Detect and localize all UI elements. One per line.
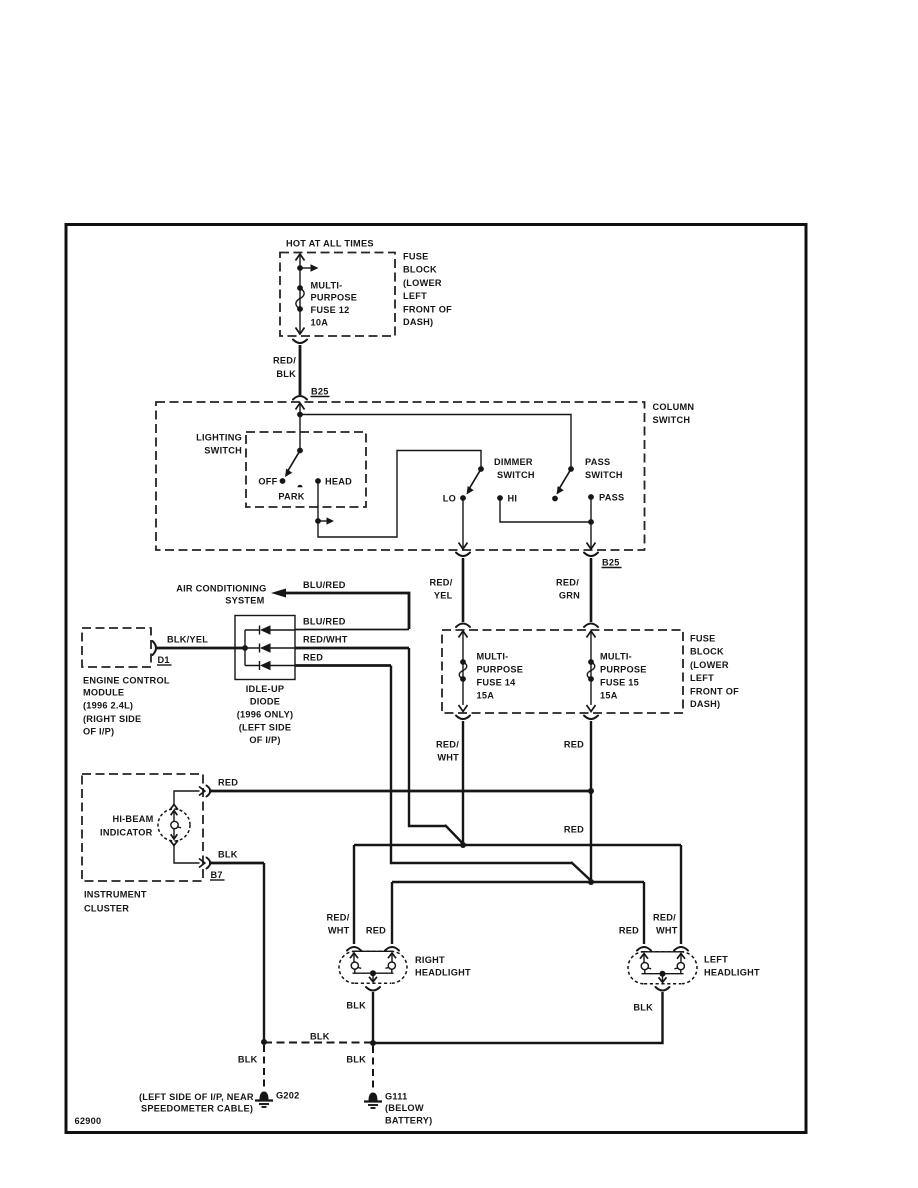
connector cup B25-PASS (584, 553, 598, 557)
connector cup LHL ground (656, 987, 670, 991)
wire BLK dashed link (264, 1042, 373, 1044)
svg-text:DASH): DASH) (690, 699, 720, 709)
ground G202 (255, 1092, 273, 1108)
svg-text:CLUSTER: CLUSTER (84, 904, 129, 914)
connector cup LHL red (637, 947, 651, 951)
svg-text:PASS: PASS (599, 493, 624, 503)
svg-text:LO: LO (443, 494, 456, 504)
connector cup RHL red (385, 947, 399, 951)
svg-text:B25: B25 (311, 387, 329, 397)
svg-text:RED/: RED/ (653, 913, 676, 923)
svg-text:RED: RED (564, 825, 584, 835)
svg-text:FUSE 12: FUSE 12 (311, 305, 350, 315)
lighting switch arm (288, 451, 301, 472)
svg-text:HEADLIGHT: HEADLIGHT (704, 968, 760, 978)
svg-text:SWITCH: SWITCH (585, 470, 623, 480)
wire hi-beam to RED (174, 791, 200, 805)
svg-text:WHT: WHT (328, 926, 350, 936)
arrow down fuse14 exit (459, 705, 468, 712)
svg-text:HEAD: HEAD (325, 477, 352, 487)
contact LO (460, 495, 466, 501)
svg-text:15A: 15A (477, 691, 495, 701)
svg-text:10A: 10A (311, 318, 329, 328)
fuse block 2 dashed box (442, 630, 683, 713)
svg-text:RED/: RED/ (436, 740, 459, 750)
node B25 feed dot (297, 412, 303, 418)
svg-text:DIMMER: DIMMER (494, 457, 533, 467)
svg-text:BLK/YEL: BLK/YEL (167, 635, 208, 645)
svg-text:BLK: BLK (346, 1055, 366, 1065)
svg-text:PARK: PARK (278, 492, 304, 502)
dimmer switch arm (469, 469, 481, 489)
svg-text:GRN: GRN (559, 591, 580, 601)
fuse F15 wire (590, 631, 592, 705)
connector cup LHL redwht (674, 947, 688, 951)
wire BLU/RED diode out (295, 629, 409, 631)
svg-text:PASS: PASS (585, 457, 610, 467)
svg-text:LEFT: LEFT (403, 291, 427, 301)
arrow up fuse15 entry (587, 631, 596, 638)
svg-text:WHT: WHT (437, 753, 459, 763)
LHL filament low (677, 954, 685, 959)
svg-text:DIODE: DIODE (250, 697, 280, 707)
svg-text:MULTI-: MULTI- (600, 652, 632, 662)
connector B25 cup (293, 396, 307, 400)
svg-text:(1996 ONLY): (1996 ONLY) (237, 710, 294, 720)
svg-text:SPEEDOMETER CABLE): SPEEDOMETER CABLE) (141, 1104, 253, 1114)
diode bus BLK/YEL (156, 647, 245, 650)
svg-text:RED/: RED/ (556, 578, 579, 588)
wire BLK left headlight (373, 992, 663, 1043)
svg-text:BLK: BLK (276, 369, 296, 379)
arrow up to hot feed (296, 254, 305, 261)
svg-text:RIGHT: RIGHT (415, 955, 445, 965)
RHL filament low (350, 953, 358, 958)
wire from HEAD (318, 451, 481, 538)
label idle-up diode (237, 684, 294, 745)
wire BLK right headlight (372, 992, 374, 1043)
connector cup fuse15 bottom (584, 716, 598, 720)
diode 2 (245, 647, 295, 649)
svg-text:RED/: RED/ (327, 913, 350, 923)
svg-text:BLK: BLK (346, 1001, 366, 1011)
svg-text:INDICATOR: INDICATOR (100, 828, 153, 838)
fuse F14 symbol (460, 659, 466, 665)
svg-text:SWITCH: SWITCH (497, 470, 535, 480)
arrow B25 male (296, 403, 305, 410)
pass switch arm (559, 469, 571, 489)
connector arrow cluster RED (199, 787, 205, 796)
svg-text:RED/: RED/ (273, 356, 296, 366)
wire from B25 to lighting switch (299, 403, 301, 450)
svg-text:BLK: BLK (633, 1003, 653, 1013)
svg-text:COLUMN: COLUMN (653, 402, 695, 412)
svg-text:BLU/RED: BLU/RED (303, 580, 346, 590)
contact HEAD (315, 478, 321, 484)
svg-text:PURPOSE: PURPOSE (477, 665, 524, 675)
arrow down PASS exit (587, 543, 596, 550)
arrow down LO exit (459, 543, 468, 550)
dimmer switch pivot (478, 466, 484, 472)
arrow to park/tail circuits (318, 520, 327, 522)
fuse block 2 label (690, 634, 739, 710)
svg-text:FRONT OF: FRONT OF (690, 687, 739, 697)
svg-text:RED: RED (564, 740, 584, 750)
svg-text:RED: RED (619, 926, 639, 936)
arrow down at fuse block 1 exit (296, 328, 305, 335)
svg-text:YEL: YEL (434, 591, 453, 601)
hi-beam indicator bulb (158, 809, 190, 841)
wire BLU/RED to AC (284, 593, 409, 629)
connector cup D1 (153, 641, 157, 655)
arrow down fuse15 exit (587, 705, 596, 712)
svg-text:OFF: OFF (258, 477, 277, 487)
connector cup RHL ground (366, 987, 380, 991)
svg-text:MODULE: MODULE (83, 688, 124, 698)
arrow up fuse14 entry (459, 631, 468, 638)
svg-text:SYSTEM: SYSTEM (225, 596, 264, 606)
svg-text:RED/WHT: RED/WHT (303, 635, 348, 645)
svg-text:(RIGHT SIDE: (RIGHT SIDE (83, 714, 141, 724)
fuse F12 symbol (297, 285, 303, 291)
svg-text:LIGHTING: LIGHTING (196, 433, 242, 443)
svg-text:B25: B25 (602, 558, 620, 568)
LHL filament high (640, 954, 648, 959)
svg-text:IDLE-UP: IDLE-UP (246, 684, 285, 694)
svg-text:RED/: RED/ (430, 578, 453, 588)
connector cup fuse14 bottom (456, 716, 470, 720)
svg-text:(LEFT SIDE OF I/P, NEAR: (LEFT SIDE OF I/P, NEAR (139, 1092, 254, 1102)
svg-text:B7: B7 (211, 870, 223, 880)
pass switch open contact (552, 496, 558, 502)
wire RED distribution (392, 881, 644, 883)
svg-text:OF I/P): OF I/P) (249, 735, 280, 745)
instrument cluster dashed box (82, 774, 203, 881)
svg-text:G111: G111 (385, 1092, 407, 1102)
svg-text:FUSE 14: FUSE 14 (477, 678, 517, 688)
svg-text:G202: G202 (276, 1091, 299, 1101)
connector cup cluster BLK (207, 858, 211, 869)
svg-text:RED: RED (303, 653, 323, 663)
svg-text:HI-BEAM: HI-BEAM (112, 814, 153, 824)
svg-text:FRONT OF: FRONT OF (403, 305, 452, 315)
connector cup below fuse block 1 (293, 340, 307, 344)
wire LO output (462, 498, 464, 548)
connector cup fuse14 top (456, 624, 470, 628)
label engine control module (83, 676, 170, 737)
svg-text:(LOWER: (LOWER (403, 278, 442, 288)
connector cup B25-LO (456, 553, 470, 557)
svg-text:WHT: WHT (656, 926, 678, 936)
engine control module dashed box (82, 628, 151, 667)
wire RED from fuse 15 (590, 721, 592, 882)
LHL common (642, 973, 684, 975)
wire RED/WHT distribution (354, 844, 681, 846)
wire fuse 12 vertical (299, 254, 301, 333)
node RED junction lower (588, 879, 594, 885)
svg-text:HOT AT ALL TIMES: HOT AT ALL TIMES (286, 239, 374, 249)
node pass junction (588, 519, 594, 525)
contact PASS (588, 494, 594, 500)
connector cup RHL redwht (347, 947, 361, 951)
svg-text:62900: 62900 (75, 1116, 102, 1126)
wire hi-beam to BLK (174, 846, 200, 864)
fuse F14 wire (462, 631, 464, 705)
fuse block 1 label (403, 252, 452, 328)
svg-text:BLK: BLK (238, 1055, 258, 1065)
svg-text:FUSE 15: FUSE 15 (600, 678, 639, 688)
svg-text:BLU/RED: BLU/RED (303, 617, 346, 627)
RHL filament high (388, 953, 396, 958)
svg-text:AIR CONDITIONING: AIR CONDITIONING (176, 584, 266, 594)
pass switch pivot (568, 466, 574, 472)
wire HI to pass node (500, 498, 591, 522)
node head branch dot (315, 518, 321, 524)
label fuse 14 (477, 652, 524, 701)
connector cup cluster RED (207, 786, 211, 797)
svg-text:LEFT: LEFT (704, 955, 728, 965)
wire feed to pass switch (300, 415, 571, 470)
svg-text:BLK: BLK (310, 1032, 330, 1042)
wire RED/WHT diode out (295, 647, 409, 650)
wire BLK dashed to G111 (372, 1046, 374, 1090)
node RED/WHT junction (460, 842, 466, 848)
svg-text:MULTI-: MULTI- (311, 281, 343, 291)
svg-text:FUSE: FUSE (690, 634, 716, 644)
svg-text:ENGINE CONTROL: ENGINE CONTROL (83, 676, 170, 686)
svg-text:INSTRUMENT: INSTRUMENT (84, 890, 147, 900)
label fuse 12 (311, 281, 358, 328)
label fuse 15 (600, 652, 647, 701)
svg-text:BLOCK: BLOCK (403, 265, 437, 275)
RHL common (353, 972, 394, 974)
fuse F15 symbol (588, 659, 594, 665)
wire RED/BLK (299, 345, 302, 395)
wire PASS output (590, 497, 592, 548)
diode 3 (245, 665, 295, 667)
svg-text:BLOCK: BLOCK (690, 647, 724, 657)
svg-text:(1996 2.4L): (1996 2.4L) (83, 701, 133, 711)
node ground junction right (370, 1040, 376, 1046)
svg-text:(LEFT SIDE: (LEFT SIDE (239, 723, 292, 733)
svg-text:HEADLIGHT: HEADLIGHT (415, 968, 471, 978)
node ground junction left (261, 1039, 267, 1045)
wire RED to junction (209, 790, 591, 793)
border frame (66, 225, 806, 1133)
svg-text:OF I/P): OF I/P) (83, 727, 114, 737)
svg-text:(LOWER: (LOWER (690, 660, 729, 670)
svg-text:D1: D1 (158, 655, 170, 665)
svg-text:PURPOSE: PURPOSE (600, 665, 647, 675)
contact PARK (297, 485, 302, 488)
svg-text:LEFT: LEFT (690, 673, 714, 683)
svg-text:RED: RED (218, 778, 238, 788)
svg-text:(BELOW: (BELOW (385, 1103, 424, 1113)
svg-text:DASH): DASH) (403, 317, 433, 327)
arrow to AC system (271, 589, 286, 598)
diode 1 (245, 629, 295, 631)
wire RED diode out (295, 664, 391, 667)
wire RED/YEL (462, 558, 465, 622)
svg-text:SWITCH: SWITCH (204, 446, 242, 456)
svg-text:BATTERY): BATTERY) (385, 1116, 432, 1126)
svg-text:MULTI-: MULTI- (477, 652, 509, 662)
arrow to other circuits (300, 267, 311, 269)
contact OFF (280, 478, 286, 484)
wire RED/WHT from fuse 14 (462, 721, 464, 845)
node diode bus dot (242, 645, 248, 651)
node junction dot fuse12 top (297, 265, 303, 271)
wire BLK dashed to G202 (263, 1045, 265, 1089)
contact HI (497, 495, 503, 501)
svg-text:HI: HI (508, 494, 518, 504)
svg-text:BLK: BLK (218, 850, 238, 860)
fuse block 1 dashed box (280, 253, 395, 337)
left headlight bulb (628, 952, 697, 984)
ground G111 (364, 1093, 382, 1109)
svg-text:PURPOSE: PURPOSE (311, 293, 358, 303)
wire RED/GRN (590, 558, 593, 622)
svg-text:15A: 15A (600, 691, 618, 701)
column switch dashed box (156, 402, 645, 550)
lighting switch dashed box (246, 432, 366, 507)
svg-text:RED: RED (366, 926, 386, 936)
wire BLK from cluster (209, 862, 264, 865)
svg-text:SWITCH: SWITCH (653, 415, 691, 425)
idle-up diode box (235, 616, 295, 680)
svg-text:FUSE: FUSE (403, 252, 429, 262)
connector arrow cluster BLK (199, 859, 205, 868)
right headlight bulb (339, 951, 407, 983)
lighting switch pivot (297, 448, 303, 454)
node RED junction (588, 788, 594, 794)
connector cup fuse15 top (584, 624, 598, 628)
